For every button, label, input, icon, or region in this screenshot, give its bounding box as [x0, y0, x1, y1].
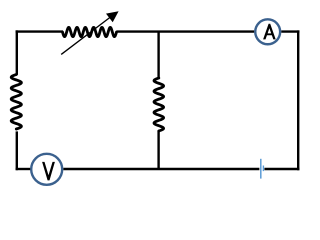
variable resistor R1 arrow shaft [61, 17, 110, 54]
wire top-right segment (ammeter to corner) [281, 30, 299, 32]
ammeter A1 circle [255, 19, 280, 44]
wire top middle segment [117, 30, 255, 32]
ammeter A1 label [263, 24, 276, 40]
wire bottom middle segment (cell to voltmeter) [63, 168, 259, 170]
variable resistor R1 squiggle [63, 27, 117, 36]
wire bottom-right segment (corner to cell) [264, 168, 299, 170]
wire left vertical lower [16, 131, 18, 170]
resistor R2 left coil [11, 75, 21, 130]
battery cell BT1 short plate [262, 166, 264, 172]
wire top-left horizontal segment [16, 30, 63, 32]
voltmeter V1 circle [31, 154, 62, 185]
wire middle branch upper [157, 32, 159, 78]
resistor R3 middle coil [154, 78, 164, 131]
voltmeter V1 label [42, 162, 55, 181]
wire right vertical [297, 30, 299, 170]
wire middle branch lower [157, 131, 159, 169]
variable resistor R1 arrowhead [106, 11, 119, 22]
battery cell BT1 long plate [260, 159, 262, 179]
wire bottom-left segment [16, 168, 31, 170]
wire left vertical upper [16, 30, 18, 74]
